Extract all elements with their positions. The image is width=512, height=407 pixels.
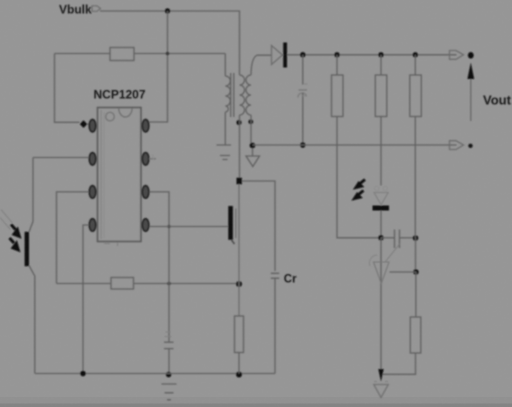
pin 2 pad (89, 153, 95, 165)
wire: TL431 ref (390, 271, 416, 273)
wire: left loop down to pin 1 (55, 54, 80, 123)
transistor Q1 channel line (235, 209, 237, 239)
wire: pin 2 to optocoupler collector (33, 157, 89, 159)
wire: CS sense line (57, 283, 112, 285)
ground (secondary triangle bottom) (374, 385, 389, 398)
LED emission arrow 2 (359, 191, 364, 195)
node: faint Cvcc value marks (165, 332, 172, 337)
transformer T1 secondary winding (246, 75, 251, 115)
wire: IC inner left line (100, 110, 102, 239)
wire: pin 6 Vcc drop (149, 192, 169, 342)
transformer T1 core (231, 73, 234, 117)
zener U2 TL431 (380, 238, 382, 369)
node: sense resistor rail dot (236, 372, 242, 378)
pin 3 pad (89, 186, 95, 198)
optocoupler photo arrows (thin shafts) (1, 210, 13, 224)
node: bulk junction dot (165, 8, 170, 13)
transformer T1 primary winding (240, 75, 245, 115)
node: Vout- terminal (450, 141, 464, 150)
LED of optocoupler (375, 186, 379, 190)
resistor Rsense (vertical) (235, 316, 244, 353)
LED emission arrow 1 (360, 180, 365, 184)
wire: drain node to Cr (242, 181, 275, 271)
pin 4 pad (89, 219, 95, 231)
node: Vcc cap ground dot (166, 372, 172, 378)
node: LED / feedback junction (378, 235, 384, 241)
node: Cout dot (300, 52, 306, 58)
wire: output lower rail (253, 144, 457, 146)
node: Vcc drop / Drv wire crossing (167, 225, 170, 228)
node: IC notch (119, 108, 132, 117)
transformer T1 aux winding lead (224, 54, 226, 77)
wire: Vbulk top rail to transformer primary (100, 11, 240, 75)
wire: opto emitter (29, 266, 35, 374)
node: R1 dot (334, 52, 339, 57)
op-amp U1 NCP1207 body (98, 108, 142, 242)
wire: MOSFET vertical (238, 184, 240, 316)
node: comp/divider dot (413, 235, 419, 241)
pin 8 pad (142, 120, 148, 132)
ground (primary, below rail) (162, 384, 177, 400)
capacitor Ccomp (horizontal) (381, 237, 394, 239)
ground (secondary triangle) (252, 148, 254, 156)
node: arrow into pin 1 (80, 120, 88, 128)
wire: output top rail (287, 54, 457, 56)
resistor R3 (divider right) (414, 55, 416, 75)
node: pin4 rail dot (80, 371, 86, 377)
node: secondary ground arrow (378, 369, 383, 382)
wire: secondary top to diode (251, 55, 272, 75)
wire: pin 3 CS loop (57, 192, 90, 284)
transformer T1 aux winding (225, 76, 230, 112)
transistor Q1 MOSFET gate bar (228, 206, 233, 240)
wire: secondary bottom (250, 115, 252, 145)
wire: pin 5 Drv to MOSFET gate (149, 226, 228, 228)
node: crossing dot at startup line / HV riser (166, 52, 170, 56)
node: Cout lower dot (300, 142, 306, 148)
pin 6 pad (142, 186, 148, 198)
capacitor Cr plates (271, 273, 279, 278)
pin 5 pad (142, 219, 148, 231)
optocoupler arrow 2 (10, 238, 15, 243)
capacitor Cvcc plates (164, 341, 174, 343)
node: drain junction square (237, 178, 242, 185)
resistor R1 (divider top-left) (336, 55, 338, 75)
node: primary phase dot (236, 120, 241, 125)
diode D1 (272, 46, 283, 65)
bottom vignette (0, 397, 512, 407)
ground (aux winding) (217, 145, 232, 160)
node: CS at MOSFET source (236, 281, 242, 287)
pin 7 stub (149, 158, 156, 160)
pin 1 pad (89, 120, 95, 132)
resistor Rcs (horizontal) (111, 278, 134, 290)
wire: primary bottom to MOSFET drain (239, 115, 241, 178)
node: Vout arrow (470, 76, 472, 121)
transistor Q-opto base bar (25, 232, 29, 266)
node: Vbulk terminal (92, 6, 101, 12)
wire: HV pin 8 riser (149, 11, 167, 122)
optocoupler arrow 1 (11, 225, 16, 230)
node: Vout+ terminal (450, 51, 464, 60)
node: mosfet gate foot (232, 240, 235, 244)
resistor R2 (LED branch) (380, 55, 382, 75)
capacitor Cout (302, 55, 304, 85)
wire: opto collector (29, 158, 33, 233)
resistor R4 (divider lower) (410, 317, 421, 353)
node: secondary phase dot (248, 119, 253, 124)
node: secondary return junction (250, 143, 256, 149)
node: pin 1 indicator circle (106, 112, 115, 121)
resistor Rstartup (horizontal, top-left) (55, 53, 111, 55)
wire: pin 4 ground drop (83, 225, 89, 374)
wire: primary ground rail (35, 373, 275, 375)
node: R2 dot (378, 52, 383, 57)
pin 7 pad (142, 153, 148, 165)
node: CS line / Vcc drop crossing (167, 282, 171, 286)
node: TL431 ref dot (413, 269, 419, 275)
node: R3 dot (413, 52, 418, 57)
